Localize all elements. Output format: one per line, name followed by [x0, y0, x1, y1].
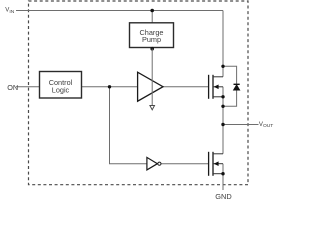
svg-text:Pump: Pump [142, 35, 161, 44]
svg-text:ON: ON [7, 83, 18, 92]
svg-text:Logic: Logic [52, 85, 70, 94]
svg-text:GND: GND [215, 192, 231, 200]
